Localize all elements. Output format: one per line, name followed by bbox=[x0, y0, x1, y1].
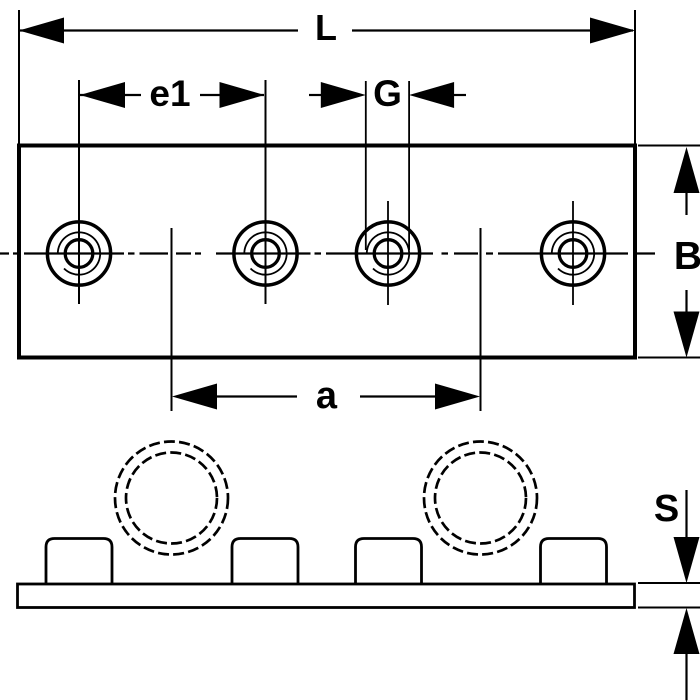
svg-text:e1: e1 bbox=[149, 73, 190, 114]
extension line S top bbox=[638, 582, 700, 584]
dimension e1 bbox=[80, 73, 265, 114]
hidden port circle right (dashed, inner) bbox=[435, 453, 526, 544]
hidden port circle left (dashed, inner) bbox=[126, 453, 217, 544]
extension line B top bbox=[638, 145, 700, 147]
extension line G left bbox=[365, 81, 367, 250]
hidden port circle left (dashed, outer) bbox=[115, 442, 228, 555]
svg-text:B: B bbox=[674, 235, 700, 278]
hole 4 bbox=[541, 201, 604, 305]
hidden port circle right (dashed, outer) bbox=[424, 442, 537, 555]
bar outline (side view) bbox=[18, 584, 635, 608]
dimension B bbox=[674, 147, 700, 358]
dimension L bbox=[19, 7, 635, 48]
boss 4 (side view) bbox=[541, 539, 607, 585]
extension line L left bbox=[18, 10, 20, 145]
dimension G bbox=[309, 73, 466, 114]
dimension a bbox=[172, 375, 480, 417]
extension line B bottom bbox=[638, 357, 700, 359]
boss 1 (side view) bbox=[46, 539, 112, 585]
dimension S bbox=[654, 488, 700, 700]
hole 2 bbox=[234, 222, 297, 285]
extension line e1 left / hole 1 centerline bbox=[78, 80, 80, 304]
extension line G right bbox=[408, 81, 410, 250]
extension line a left bbox=[171, 228, 173, 411]
extension line S bottom bbox=[638, 607, 700, 609]
svg-text:a: a bbox=[316, 375, 338, 417]
extension line e1 right / hole 2 centerline bbox=[265, 80, 267, 304]
hole 1 bbox=[47, 222, 110, 285]
boss 2 (side view) bbox=[232, 539, 298, 585]
extension line a right bbox=[480, 228, 482, 411]
extension line L right bbox=[634, 10, 636, 145]
svg-text:G: G bbox=[373, 73, 402, 114]
svg-text:L: L bbox=[315, 7, 337, 48]
plate outline (top view) bbox=[19, 146, 635, 358]
centerline (horizontal dash-dot) bbox=[0, 252, 655, 254]
svg-text:S: S bbox=[654, 488, 679, 530]
hole 3 bbox=[356, 201, 419, 305]
boss 3 (side view) bbox=[356, 539, 422, 585]
